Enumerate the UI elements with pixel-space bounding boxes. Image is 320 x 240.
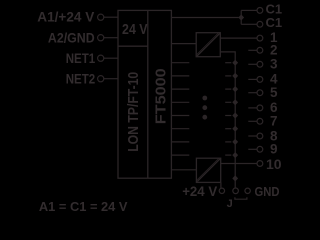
svg-text:C1: C1: [265, 15, 282, 30]
branch stub left row d: [225, 101, 231, 103]
terminal A2 circle: [98, 35, 104, 41]
wire U2 to terminal 10: [221, 163, 257, 165]
wire box to converter U1: [171, 43, 196, 45]
wire C1 junction riser: [240, 10, 242, 24]
terminal 4 circle: [257, 77, 263, 83]
converter U2 diagonal: [197, 159, 220, 182]
pin stub row e: [171, 115, 189, 117]
wire A1 to box: [104, 16, 118, 18]
bus arrow c: [232, 86, 238, 92]
svg-text:5: 5: [270, 85, 278, 100]
terminal C1 lower circle: [257, 21, 263, 27]
terminal 8 circle: [257, 133, 263, 139]
converter U2 diagonal echo: [197, 159, 219, 180]
terminal 6 circle: [257, 105, 263, 111]
terminal 1 circle: [257, 35, 263, 41]
svg-text:LON TP/FT-10: LON TP/FT-10: [125, 72, 142, 152]
branch stub left row g: [225, 141, 231, 143]
dash to terminal 6: [248, 107, 257, 109]
bus arrow d: [232, 99, 238, 105]
dash to terminal 9: [248, 148, 257, 150]
bus arrow h: [232, 152, 238, 158]
converter U1 diagonal echo: [197, 33, 218, 54]
dash to terminal 5: [248, 92, 257, 94]
wire box to converter U2: [171, 169, 196, 171]
svg-text:10: 10: [266, 156, 282, 172]
terminal 5 circle: [257, 90, 263, 96]
svg-text:A2/GND: A2/GND: [48, 31, 95, 46]
svg-text:NET2: NET2: [66, 72, 96, 87]
wire NET1 to box: [104, 57, 118, 59]
dash to terminal 8: [248, 135, 257, 137]
wire A2 to box: [104, 37, 118, 39]
svg-text:+24 V: +24 V: [182, 184, 217, 199]
svg-text:A1/+24 V: A1/+24 V: [37, 10, 94, 25]
bus arrow bottom: [232, 175, 238, 181]
ellipsis dot 2 (repeated channels): [202, 105, 207, 110]
svg-text:3: 3: [270, 57, 278, 72]
svg-text:2: 2: [270, 43, 278, 58]
dash to terminal 4: [248, 78, 257, 80]
pin stub row d: [171, 101, 189, 103]
svg-text:24 V: 24 V: [122, 21, 148, 38]
wire U1 to terminal 1: [220, 37, 257, 39]
bus arrow e: [232, 112, 238, 118]
branch stub left row f: [225, 128, 231, 130]
terminal 7 circle: [257, 118, 263, 124]
dash to terminal 2: [248, 49, 257, 51]
svg-text:GND: GND: [255, 184, 280, 199]
dash to terminal 7: [248, 120, 257, 122]
converter U2 box: [196, 158, 220, 182]
svg-text:A1 = C1 = 24 V: A1 = C1 = 24 V: [39, 199, 128, 214]
pin stub row g: [171, 141, 189, 143]
pin stub row c: [171, 88, 189, 90]
pin stub row h: [171, 154, 189, 156]
terminal A1 circle: [98, 14, 104, 20]
terminal 9 circle: [257, 146, 263, 152]
bus arrow f: [232, 126, 238, 132]
svg-text:7: 7: [270, 114, 278, 129]
pin stub row a: [171, 62, 189, 64]
terminal 2 circle: [257, 47, 263, 53]
dash to terminal 3: [248, 63, 257, 65]
wire U1 output to bus corner: [220, 52, 235, 163]
ellipsis dot 1 (repeated channels): [202, 96, 207, 101]
wire to C1 upper: [241, 9, 257, 11]
svg-text:NET1: NET1: [66, 51, 96, 66]
svg-text:J: J: [227, 198, 233, 210]
device box FT5000 outline: [118, 10, 171, 178]
terminal C1 upper circle: [257, 7, 263, 13]
branch stub left row c: [225, 88, 231, 90]
terminal NET2 circle: [98, 76, 104, 82]
terminal mid bottom circle: [233, 188, 239, 194]
bus arrow a: [232, 60, 238, 66]
pin stub row b: [171, 75, 189, 77]
branch stub left row b: [225, 75, 231, 77]
terminal GND circle: [245, 188, 250, 193]
branch stub left row h: [225, 154, 231, 156]
bus arrow b: [232, 73, 238, 79]
ellipsis dot 3 (repeated channels): [202, 115, 207, 120]
bus arrow g: [232, 139, 238, 145]
wire U2 corner to +24V terminal: [220, 182, 222, 188]
terminal +24V circle: [219, 188, 224, 193]
branch stub left row a: [225, 62, 231, 64]
wire box to C1 junction: [171, 17, 238, 19]
junction diamond C1: [238, 14, 244, 20]
wire NET2 to box: [104, 78, 118, 80]
pin stub row f: [171, 128, 189, 130]
terminal 10 circle: [257, 161, 263, 167]
device box internal divider: [147, 10, 149, 178]
wire to C1 lower: [241, 23, 257, 25]
converter U1 box: [196, 33, 220, 57]
jumper bracket: [235, 197, 247, 199]
terminal NET1 circle: [98, 55, 104, 61]
branch stub left row e: [225, 115, 231, 117]
svg-text:C1: C1: [265, 1, 282, 16]
bus lower segment to +24V terminal: [234, 163, 236, 187]
converter U1 diagonal: [197, 33, 220, 56]
svg-text:FT5000: FT5000: [152, 68, 169, 124]
24V block bottom edge: [118, 45, 148, 47]
terminal 3 circle: [257, 61, 263, 67]
svg-text:9: 9: [270, 142, 278, 157]
